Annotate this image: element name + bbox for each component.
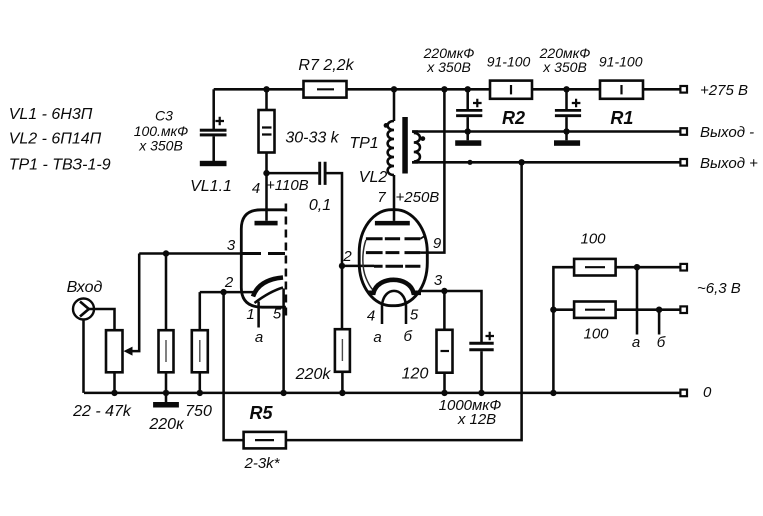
wire: 30-33k top (265, 89, 268, 110)
wire: VL2 220k top (341, 266, 344, 329)
wire: VL1 anode lead pin 4 (265, 173, 268, 221)
node: stray junction on output plus rail (467, 160, 472, 165)
svg-text:220к: 220к (148, 416, 185, 433)
VL1 anode plate bar (255, 221, 278, 226)
svg-text:VL2: VL2 (359, 169, 388, 186)
resistor 100 lower hum balance (574, 302, 616, 318)
transformer TP1 primary top wire (393, 89, 396, 121)
wire: control grid pin 2 lead into tube (342, 265, 374, 268)
svg-text:х 350В: х 350В (138, 138, 183, 154)
wire: anode node to coupling capacitor (267, 172, 319, 175)
svg-text:7: 7 (377, 189, 386, 206)
VL1 cathode arc (253, 278, 283, 297)
svg-text:0: 0 (703, 384, 712, 401)
svg-text:а: а (632, 334, 640, 351)
capacitor C3 plates (200, 129, 227, 132)
capacitor 1000uF plus sign (486, 332, 495, 340)
svg-text:9: 9 (433, 235, 442, 252)
wire: R5 right to output plus rail (286, 162, 522, 440)
svg-text:30-33 k: 30-33 k (285, 130, 339, 147)
wire: 1000uF bottom to ground rail (480, 351, 483, 393)
wire: VL1 pin 5 to ground rail (282, 289, 285, 393)
wire: coupling cap to VL2 grid branch (327, 173, 343, 266)
svg-text:100: 100 (580, 231, 606, 248)
resistor 750 cathode bias (192, 330, 208, 372)
node: junction top rail / 30-33k (263, 86, 269, 92)
svg-text:120: 120 (402, 366, 429, 383)
node: cap2 / output minus rail (563, 128, 569, 134)
resistor 220k VL1 grid leak (159, 330, 174, 372)
node: pin5 / ground rail junction (280, 390, 286, 396)
svg-text:2-3k*: 2-3k* (243, 455, 280, 472)
wire: VL2 screen grid pin 9 to top rail (420, 89, 444, 252)
potentiometer 22-47k body (106, 330, 123, 372)
node: cathode junction pin 3 (441, 288, 447, 294)
svg-text:+275 В: +275 В (700, 82, 748, 99)
node: cap1 / output minus rail (465, 128, 471, 134)
svg-text:а: а (373, 329, 381, 346)
node: 220k / ground rail junction (163, 390, 169, 396)
node: VL2 220k / ground rail junction (339, 390, 345, 396)
terminal +275V (680, 86, 687, 93)
svg-text:Выход +: Выход + (700, 155, 758, 172)
wire: VL1 grid pin 3 lead (139, 252, 242, 255)
capacitor 220uF no.2 top wire (565, 89, 568, 109)
input connector Vhod circle (73, 299, 94, 320)
svg-text:2: 2 (342, 248, 352, 265)
wire: 30-33k bottom to VL1 anode node (265, 153, 268, 174)
VL2 anode plate bar (375, 221, 410, 226)
capacitor C3 top wire (212, 89, 215, 129)
VL2 internal g3-cathode connection line (363, 240, 373, 290)
svg-text:R5: R5 (249, 403, 273, 423)
node: 100s / ground rail junction (550, 390, 556, 396)
terminal output minus (680, 128, 687, 135)
VL2 cathode arc (368, 280, 421, 293)
svg-text:750: 750 (185, 403, 212, 420)
wire: VL1 heater pin 1 stub (257, 302, 260, 328)
capacitor 220uF no.1 plus sign (473, 99, 482, 108)
node: junction top rail / filter cap 1 (465, 86, 471, 92)
svg-text:220k: 220k (295, 366, 332, 383)
node: junction top rail / transformer primary (391, 86, 397, 92)
svg-text:R2: R2 (502, 108, 525, 128)
svg-text:0,1: 0,1 (309, 197, 331, 214)
wire: upper 100 right to 6.3V terminal (616, 266, 681, 269)
node: heater net b junction (656, 307, 662, 313)
VL2 screen grid dashes (middle row) (366, 251, 421, 254)
VL2 heater arc (382, 291, 406, 306)
svg-text:R1: R1 (610, 108, 633, 128)
wire: heater net b stub (658, 310, 661, 335)
node: 750 / ground rail junction (197, 390, 203, 396)
node: VL1 anode / coupling cap junction (263, 170, 269, 176)
wire: output plus rail (transformer secondary bottom) (412, 161, 681, 164)
VL2 suppressor grid dashes (top row) (366, 237, 421, 240)
input connector chevron (80, 302, 89, 317)
svg-text:91-100: 91-100 (599, 54, 643, 70)
svg-text:ТР1 - ТВЗ-1-9: ТР1 - ТВЗ-1-9 (9, 157, 111, 174)
svg-text:VL1.1: VL1.1 (190, 178, 232, 195)
node: junction top rail / filter cap 2 (563, 86, 569, 92)
ground bar below 220k (153, 402, 179, 408)
terminal output plus (680, 159, 687, 166)
node: pot / ground rail junction (111, 390, 117, 396)
wire: cathode node to 1000uF cap (444, 291, 481, 342)
terminal 6.3V upper (680, 264, 687, 271)
transformer secondary top bend (414, 132, 418, 134)
capacitor 220uF no.1 top wire (466, 89, 469, 109)
transformer primary polarity dot (384, 123, 389, 128)
capacitor 220uF no.1 bottom wire (466, 117, 469, 140)
transformer TP1 core (402, 117, 408, 174)
transformer secondary bottom bend (414, 160, 418, 163)
wire: lower 100 left connection (553, 308, 574, 311)
ground bar at cap2 (554, 140, 580, 146)
svg-text:22 - 47k: 22 - 47k (72, 403, 132, 420)
node: 120 / ground rail junction (441, 390, 447, 396)
tube VL1.1 envelope (half, left) (241, 210, 286, 307)
capacitor 0,1 coupling plates (320, 162, 325, 185)
transformer TP1 primary winding (388, 121, 394, 175)
wire: 750 bottom to ground rail (199, 372, 202, 393)
VL1 grid dashes pin 3 (242, 252, 285, 255)
svg-text:100: 100 (583, 326, 609, 343)
wire: 120 bottom to ground rail (443, 373, 446, 393)
resistor R5 feedback (244, 432, 286, 449)
ground bar at cap1 (455, 140, 481, 146)
VL2 suppressor grid end tick (420, 236, 424, 239)
node: output plus rail / R5 feedback junction (518, 159, 524, 165)
wire: input hot to volume pot top (89, 309, 115, 330)
svg-text:R7 2,2k: R7 2,2k (298, 57, 354, 74)
svg-text:1: 1 (246, 306, 254, 323)
wire: input ground stem (82, 320, 85, 393)
svg-text:+250В: +250В (396, 189, 440, 206)
svg-text:б: б (657, 334, 666, 351)
node: junction top rail / pin9 screen wire (441, 86, 447, 92)
ground bar at C3 (200, 161, 227, 166)
svg-text:б: б (403, 328, 412, 345)
tube VL2 envelope (359, 210, 427, 306)
resistor 120 cathode bias VL2 (437, 330, 453, 373)
svg-text:5: 5 (410, 307, 419, 324)
svg-text:х 12В: х 12В (457, 411, 496, 428)
wire: +275V top supply rail (214, 88, 681, 91)
potentiometer wiper arrow (124, 347, 133, 356)
capacitor C3 bottom wire (212, 136, 215, 161)
svg-text:х 350В: х 350В (542, 59, 587, 75)
wire: lower 100 right to 6.3V terminal (616, 308, 681, 311)
wire: heater net a stub (636, 267, 639, 334)
tube VL1.1 envelope symmetry dashed line (285, 204, 288, 317)
capacitor C3 polarity plus (215, 117, 224, 125)
terminal 6.3V lower (680, 306, 687, 313)
wire: VL2 220k bottom to ground rail (341, 372, 344, 393)
wire: bottom ground rail (84, 392, 681, 395)
resistor R1 91-100 (600, 81, 643, 99)
wire: 750 top to pin 2 wire (199, 292, 202, 330)
wire: 100s left side common to ground rail (553, 267, 574, 393)
capacitor 220uF no.2 plates (555, 110, 581, 115)
svg-text:5: 5 (273, 306, 282, 323)
node: 100s left junction (550, 307, 556, 313)
VL2 control grid dashes (bottom row) (374, 265, 420, 268)
node: VL2 grid junction (0.1uF / 220k) (339, 263, 345, 269)
svg-text:4: 4 (252, 180, 260, 197)
svg-text:Выход -: Выход - (700, 124, 754, 141)
svg-text:VL1 - 6Н3П: VL1 - 6Н3П (9, 106, 93, 123)
svg-text:+110В: +110В (266, 177, 309, 194)
terminal 0 (680, 390, 687, 397)
wire: VL2 heater pin 4 stub (381, 306, 384, 325)
wire: 220k top to grid wire (165, 254, 168, 331)
svg-text:4: 4 (367, 308, 375, 325)
svg-text:VL2 - 6П14П: VL2 - 6П14П (9, 131, 102, 148)
resistor 220k VL2 grid leak (335, 329, 350, 372)
resistor 30-33k anode load (259, 110, 275, 153)
wire: R5 left branch from pin2 junction (224, 292, 244, 440)
transformer secondary polarity dot (420, 136, 425, 141)
svg-text:ТР1: ТР1 (349, 135, 378, 152)
wire: 220k bottom to ground rail (165, 372, 168, 402)
resistor R2 91-100 (490, 81, 532, 99)
resistor R7 2.2k (304, 81, 347, 98)
capacitor 220uF no.2 plus sign (572, 99, 581, 108)
capacitor 220uF no.1 plates (456, 110, 482, 115)
wire: VL2 heater pin 5 stub (405, 306, 408, 325)
wire: output minus rail (transformer secondary top) (412, 130, 681, 133)
svg-text:3: 3 (227, 237, 236, 254)
svg-text:2: 2 (224, 274, 234, 291)
capacitor 220uF no.2 bottom wire (565, 117, 568, 140)
wire: VL1 cathode pin 2 lead (200, 291, 254, 294)
wire: VL2 cathode pin 3 lead (421, 290, 445, 293)
capacitor 1000uF plates (469, 343, 493, 350)
node: pin2 wire / R5 branch junction (220, 289, 226, 295)
svg-text:3: 3 (434, 272, 443, 289)
svg-text:С3: С3 (155, 108, 173, 124)
node: 1000uF / ground rail junction (478, 390, 484, 396)
wire: cathode node down to 120 resistor (443, 291, 446, 330)
svg-text:а: а (255, 329, 263, 346)
svg-text:х 350В: х 350В (426, 59, 471, 75)
node: heater net a junction (634, 264, 640, 270)
svg-text:Вход: Вход (67, 279, 103, 296)
transformer TP1 secondary winding (414, 133, 420, 162)
resistor 100 upper hum balance (574, 259, 616, 276)
wire: primary bottom to VL2 anode pin 7 (393, 175, 396, 221)
VL1 heater arc (255, 288, 284, 304)
wire: wiper to VL1 grid (132, 254, 140, 352)
svg-text:91-100: 91-100 (487, 54, 531, 70)
node: grid wire / 220k grid leak junction (163, 250, 169, 256)
wire: pot bottom to ground rail (113, 372, 116, 393)
svg-text:~6,3 В: ~6,3 В (697, 280, 741, 297)
